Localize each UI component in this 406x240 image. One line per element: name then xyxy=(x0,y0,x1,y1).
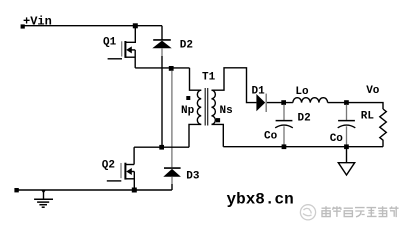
wire D2 anode to node B xyxy=(161,56,163,147)
svg-text:Ns: Ns xyxy=(220,105,233,117)
node Co1 bottom junction xyxy=(282,144,287,149)
transistor Q1 xyxy=(108,41,136,59)
Q1 gate lead xyxy=(108,58,122,60)
wire D3 cathode line (grey) xyxy=(171,71,173,168)
capacitor Co1 top pin (grey) xyxy=(283,105,285,121)
wire output bottom rail xyxy=(223,146,383,148)
wire secondary bottom to output rail xyxy=(212,124,224,146)
wire primary bottom elbow xyxy=(189,124,201,147)
transistor Q2 xyxy=(107,163,135,181)
diode D3 triangle xyxy=(163,169,181,177)
capacitor Co1 plates xyxy=(276,120,293,122)
diode D3 anode pin xyxy=(171,177,173,184)
capacitor Co2 top pin (grey) xyxy=(346,105,348,121)
wire Q2 drain to node B xyxy=(133,147,135,164)
Q1 body arrow xyxy=(126,46,132,53)
T1 secondary polarity dot xyxy=(216,118,220,122)
Q2 body arrow xyxy=(126,168,132,175)
diode D2 clamp wire (Vin corner down) xyxy=(161,26,163,40)
T1 primary winding Np xyxy=(197,90,201,124)
svg-text:D1: D1 xyxy=(252,86,266,98)
capacitor Co2 plates xyxy=(338,120,355,122)
resistor RL zigzag xyxy=(380,109,387,147)
ground earth symbol xyxy=(34,190,53,207)
svg-text:+Vin: +Vin xyxy=(23,15,52,29)
inductor Lo xyxy=(284,98,347,103)
Q2 drain stub xyxy=(125,164,134,166)
svg-text:T1: T1 xyxy=(202,71,216,83)
svg-text:RL: RL xyxy=(361,111,375,123)
wire D3 anode to ground rail xyxy=(171,184,173,190)
capacitor Co2 bottom pin (grey) xyxy=(346,126,348,146)
Q2 arrow lead xyxy=(132,171,135,173)
wire primary top elbow xyxy=(190,68,202,90)
diode D1 cathode bar (grey) xyxy=(265,94,267,112)
node Q2 source junction xyxy=(132,188,137,193)
wire secondary top to D1 xyxy=(212,68,257,103)
Q1 gate bar (pin, grey) xyxy=(121,41,123,56)
svg-text:Vo: Vo xyxy=(366,85,380,97)
wire Q2 source to ground rail xyxy=(133,172,135,191)
wire Q1 source to node A xyxy=(134,50,136,68)
Q2 source stub xyxy=(125,178,134,180)
Q1 channel bar xyxy=(124,41,126,58)
T1 primary polarity dot xyxy=(186,96,190,100)
node B junction xyxy=(159,145,164,150)
capacitor Co1 bottom pin (grey) xyxy=(283,126,285,146)
wire Q1 drain vertical xyxy=(125,26,135,43)
T1 core lines xyxy=(205,88,208,126)
svg-text:D3: D3 xyxy=(186,171,200,183)
Q2 gate bar (pin, grey) xyxy=(120,163,122,178)
wire ground rail xyxy=(17,189,172,191)
svg-text:Lo: Lo xyxy=(295,86,309,98)
node D1 output junction xyxy=(281,100,286,105)
diode D3 cathode bar xyxy=(164,167,181,169)
T1 secondary winding Ns xyxy=(212,90,216,124)
wire output top rail to RL xyxy=(347,103,384,109)
node ground port square xyxy=(14,188,18,192)
wire D1 cathode to junction xyxy=(267,102,284,104)
Q2 gate lead xyxy=(107,180,122,182)
node A junction xyxy=(169,66,174,71)
svg-text:ybx8.cn: ybx8.cn xyxy=(227,191,294,209)
svg-text:D2: D2 xyxy=(180,40,193,52)
svg-text:Q2: Q2 xyxy=(102,159,115,171)
svg-text:Co: Co xyxy=(330,133,344,145)
wire node B horizontal xyxy=(134,146,189,148)
svg-text:Q1: Q1 xyxy=(103,36,117,48)
wire +Vin rail xyxy=(23,25,162,27)
diode D1 triangle xyxy=(256,94,265,111)
svg-text:D2: D2 xyxy=(298,113,311,125)
node Q1 drain junction xyxy=(133,23,138,28)
diode D2 cathode bar xyxy=(153,39,171,41)
wire node A horizontal xyxy=(135,67,189,69)
ground output symbol xyxy=(338,147,354,175)
node +Vin port square xyxy=(21,24,25,28)
transformer T1 xyxy=(186,88,220,126)
Q1 source stub xyxy=(125,56,135,58)
node Co2 bottom junction xyxy=(344,144,349,149)
Q1 arrow lead xyxy=(132,49,136,51)
footer text 硬件电子工程师 (drawn as grey glyph strokes) xyxy=(322,206,399,217)
node Lo output junction xyxy=(344,100,349,105)
Q2 channel bar xyxy=(124,163,126,180)
diode D2 triangle xyxy=(152,41,171,49)
svg-text:Co: Co xyxy=(264,131,278,143)
diode D2 anode pin xyxy=(161,48,163,56)
svg-text:Np: Np xyxy=(181,105,195,117)
footer logo xyxy=(300,205,315,220)
